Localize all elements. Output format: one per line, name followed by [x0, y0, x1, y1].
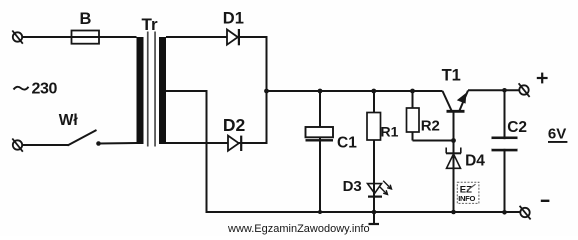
- svg-text:D2: D2: [223, 115, 246, 135]
- svg-text:R1: R1: [381, 124, 399, 140]
- svg-text:C1: C1: [337, 135, 357, 152]
- svg-text:Wł: Wł: [59, 112, 79, 129]
- svg-text:Tr: Tr: [142, 15, 158, 34]
- svg-text:D3: D3: [343, 178, 362, 195]
- svg-text:230: 230: [32, 81, 58, 98]
- svg-text:T1: T1: [442, 66, 461, 84]
- svg-text:D4: D4: [465, 152, 485, 169]
- svg-text:INFO: INFO: [458, 194, 475, 203]
- svg-text:R2: R2: [421, 118, 440, 135]
- svg-text:C2: C2: [507, 119, 527, 136]
- svg-text:D1: D1: [223, 10, 244, 28]
- svg-text:www.EgzaminZawodowy.info: www.EgzaminZawodowy.info: [227, 223, 370, 235]
- svg-text:6V: 6V: [548, 126, 566, 143]
- svg-text:B: B: [80, 10, 92, 28]
